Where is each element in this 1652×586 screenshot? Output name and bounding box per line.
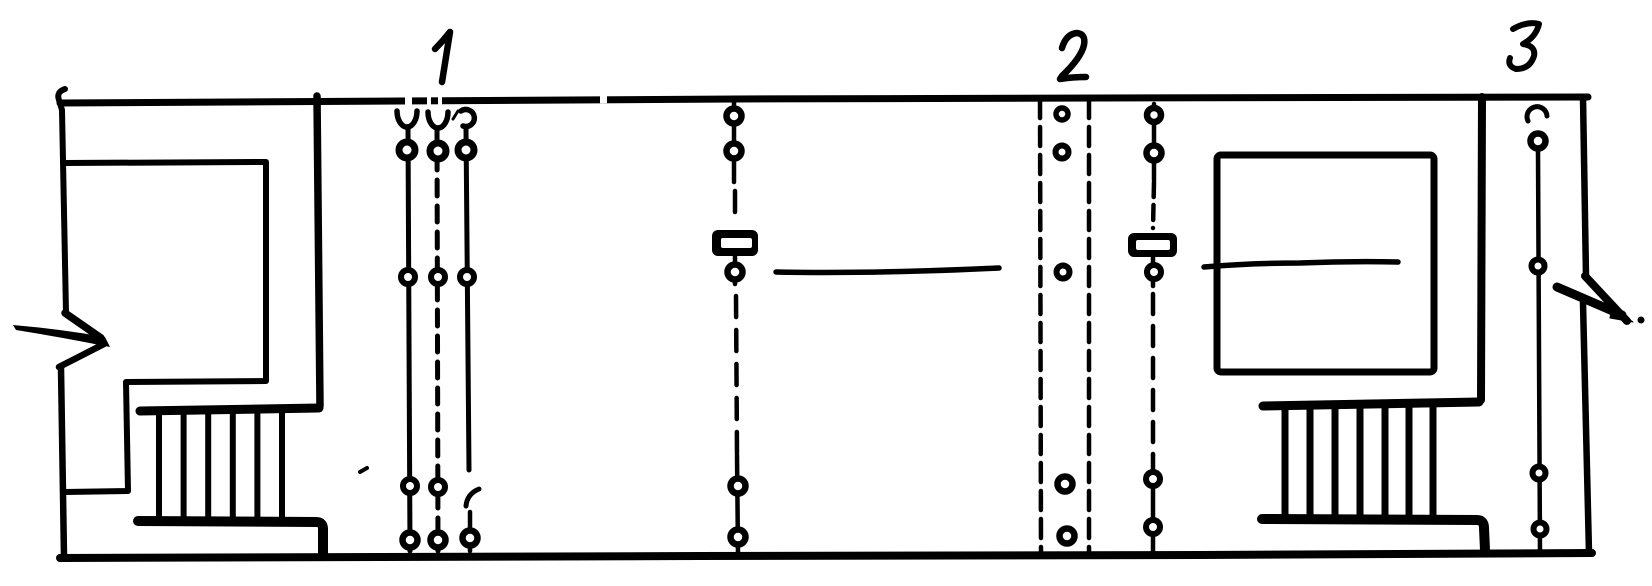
right stair step 3 [1332,405,1339,519]
right inner wall [1481,97,1482,400]
damper symbol 735 [712,230,758,256]
right stair step 1 [1282,406,1289,519]
right axis line 1538 [1538,152,1540,554]
fastener circle (410,486) [403,479,417,493]
axis 1 line B dashed [437,128,438,551]
top border dash gaps near axis 1 [405,99,607,101]
left border wall upper [58,89,66,313]
right stair step 4 [1357,405,1364,520]
axis 1 line A [408,128,410,551]
label 3 [1509,23,1539,69]
left stair step 2 [181,410,187,521]
right break symbol [1585,276,1627,321]
right stair step 2 [1307,406,1314,519]
fastener circle (1063,272) [1057,266,1070,279]
axis 2 dashed line right [1087,99,1092,556]
fastener circle (1067,536) [1060,529,1075,544]
axis line 1152 dashed middle [1151,294,1156,455]
fastener circle (1153,479) [1146,472,1160,486]
fastener circle (1154,115) [1147,108,1161,122]
left stair step 4 [230,410,236,521]
top border wall [60,97,1588,103]
fastener circle (738,537) [731,530,746,545]
fastener circle (1153,527) [1146,520,1160,534]
fastener circle (1062,152) [1056,146,1069,159]
axis line 735 below damper [733,256,738,284]
axis line 1152 below damper [1151,257,1156,286]
axis 1 curl C [461,109,474,126]
axis 1 cup A [397,111,417,127]
right axis cup [1527,107,1547,121]
fastener circle (1539,473) [1533,467,1546,480]
ink dot [1638,317,1645,324]
right border wall upper [1583,97,1586,277]
fastener circle (438,151) [430,143,446,159]
left stair step 3 [205,410,211,521]
axis line 735 dashed middle [736,296,737,455]
axis line 735 lower [737,455,738,554]
fastener circle (438,277) [431,270,445,284]
right stair step 5 [1382,404,1389,520]
right stair top bar [1263,402,1479,406]
fastener circle (734,151) [727,144,742,159]
axis line 735 dash [733,191,738,212]
fastener circle (1538,141) [1531,134,1546,149]
left stair step 1 [156,410,162,521]
fastener circle (1154,272) [1147,265,1161,279]
label 1 [435,32,450,82]
left inner wall [317,96,320,406]
fastener circle (1154,153) [1147,146,1162,161]
left stair bottom bar [138,521,323,556]
fastener circle (734,116) [727,109,742,124]
axis line 1152 upper [1152,104,1157,180]
axis 1 cup B [428,112,448,128]
left stair step 5 [254,410,260,521]
axis line 1152 dash [1153,182,1154,228]
right stair bottom bar [1262,519,1485,550]
left stair top bar [140,408,319,411]
fastener circle (1065,484) [1058,477,1073,492]
right stair step 7 [1430,404,1437,520]
axis line 735 upper [732,100,737,182]
axis line 1152 lower [1151,455,1156,553]
bottom border wall [60,553,1592,558]
damper symbol 1152 [1128,233,1177,257]
fastener circle (1540,529) [1534,523,1547,536]
axis 1 line C [466,129,469,470]
fastener circle (438,487) [431,480,445,494]
fastener circle (408,277) [401,270,415,284]
line 1 [776,268,999,273]
left border wall lower [61,368,64,557]
fastener circle (410,540) [403,533,418,548]
fastener circle (438,540) [431,533,446,548]
fastener circle (1538,266) [1532,260,1545,273]
fastener circle (470,538) [463,531,478,546]
right stair step 6 [1406,404,1413,520]
fastener circle (1062,114) [1056,108,1068,120]
fastener circle (467,277) [460,270,474,284]
axis 1 line C hook [466,489,479,506]
axis 2 dashed line left [1040,99,1041,556]
left break symbol [65,313,101,338]
right border wall lower [1583,303,1589,553]
fastener circle (735,272) [728,265,743,280]
fastener circle (466,150) [458,142,474,158]
line 2 [1204,262,1398,267]
label 2 [1060,33,1086,79]
right room [1217,155,1434,372]
left room [64,162,266,492]
left stair step 6 [279,410,285,521]
speck [360,468,367,472]
fastener circle (738,486) [731,479,746,494]
fastener circle (407,150) [399,142,415,158]
